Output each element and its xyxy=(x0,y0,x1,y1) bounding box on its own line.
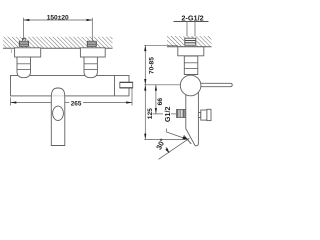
svg-text:265: 265 xyxy=(71,101,82,108)
svg-text:G1/2: G1/2 xyxy=(163,107,172,123)
svg-text:70-85: 70-85 xyxy=(148,57,155,74)
svg-text:150±20: 150±20 xyxy=(47,14,69,21)
svg-text:66: 66 xyxy=(157,98,164,106)
svg-text:125: 125 xyxy=(147,108,154,119)
